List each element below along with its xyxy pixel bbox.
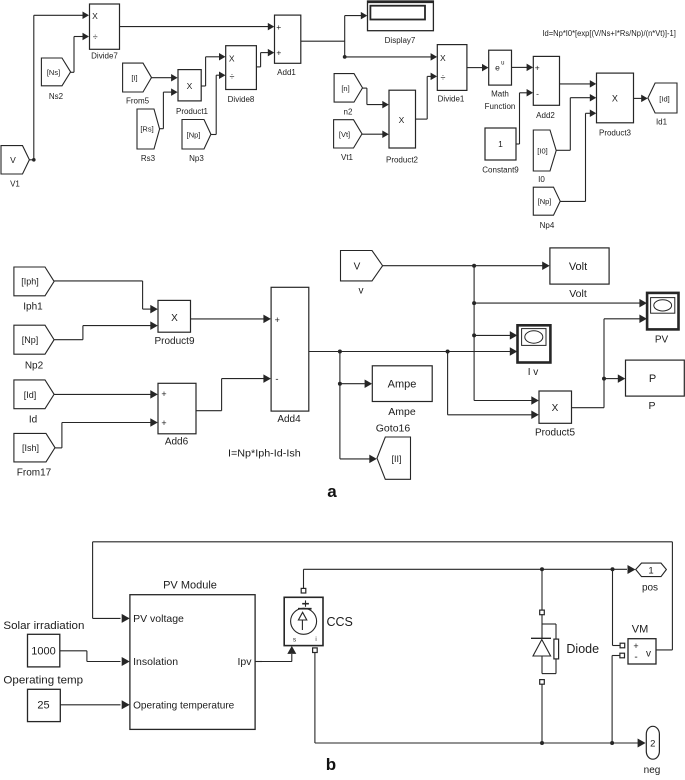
svg-text:Product9: Product9 (154, 336, 194, 347)
svg-text:CCS: CCS (327, 615, 353, 629)
svg-text:-: - (275, 374, 278, 385)
svg-text:[Id]: [Id] (24, 390, 37, 400)
svg-text:From17: From17 (17, 468, 52, 479)
svg-text:25: 25 (37, 700, 49, 712)
svg-text:Add1: Add1 (277, 68, 296, 77)
svg-text:X: X (612, 94, 618, 104)
svg-text:u: u (501, 60, 504, 66)
svg-text:[Np]: [Np] (187, 130, 201, 139)
svg-text:Divide7: Divide7 (91, 51, 118, 60)
svg-text:P: P (648, 400, 655, 412)
svg-text:Ns2: Ns2 (49, 92, 64, 101)
svg-text:Divide8: Divide8 (228, 95, 255, 104)
svg-text:a: a (327, 482, 337, 501)
svg-text:Solar irradiation: Solar irradiation (3, 620, 84, 632)
svg-text:X: X (552, 403, 559, 414)
svg-text:[Id]: [Id] (659, 94, 669, 103)
svg-text:[Ns]: [Ns] (47, 68, 60, 77)
svg-text:Diode: Diode (566, 642, 599, 656)
svg-text:v: v (646, 649, 651, 660)
svg-text:Operating temp: Operating temp (3, 675, 83, 687)
svg-text:Ampe: Ampe (388, 379, 417, 391)
svg-text:i: i (315, 637, 316, 643)
svg-text:Volt: Volt (569, 288, 587, 300)
svg-text:Np2: Np2 (25, 360, 44, 371)
svg-text:X: X (171, 313, 178, 324)
svg-text:Id1: Id1 (656, 118, 668, 127)
svg-text:÷: ÷ (230, 71, 235, 81)
svg-text:Product5: Product5 (535, 427, 575, 438)
svg-text:V: V (10, 155, 16, 165)
svg-text:Ampe: Ampe (388, 406, 416, 418)
svg-text:From5: From5 (126, 96, 150, 105)
svg-text:÷: ÷ (441, 73, 446, 83)
svg-text:+: + (161, 418, 166, 428)
svg-text:+: + (276, 22, 281, 32)
svg-text:÷: ÷ (93, 32, 98, 42)
svg-text:[Ish]: [Ish] (22, 443, 39, 453)
svg-text:Volt: Volt (569, 261, 587, 273)
svg-text:X: X (440, 53, 446, 63)
svg-text:Insolation: Insolation (133, 656, 178, 668)
svg-text:1: 1 (648, 565, 653, 576)
svg-text:[II]: [II] (391, 454, 401, 464)
svg-text:X: X (92, 11, 98, 21)
svg-text:Math: Math (491, 89, 509, 98)
svg-text:Add4: Add4 (277, 414, 301, 425)
svg-text:Operating temperature: Operating temperature (133, 700, 234, 712)
svg-text:I v: I v (528, 367, 539, 378)
svg-text:Add2: Add2 (536, 111, 555, 120)
svg-text:Np4: Np4 (540, 221, 555, 230)
svg-text:X: X (399, 115, 405, 125)
svg-text:V1: V1 (10, 179, 20, 188)
svg-text:pos: pos (642, 582, 658, 593)
svg-text:-: - (536, 89, 539, 99)
svg-text:Divide1: Divide1 (438, 94, 465, 103)
svg-text:Np3: Np3 (189, 154, 204, 163)
svg-text:+: + (633, 641, 638, 651)
svg-text:2: 2 (650, 739, 655, 750)
svg-text:[Np]: [Np] (538, 197, 552, 206)
svg-text:Iph1: Iph1 (23, 302, 43, 313)
svg-text:Rs3: Rs3 (141, 154, 156, 163)
svg-text:Vt1: Vt1 (341, 153, 354, 162)
svg-text:Product3: Product3 (599, 128, 632, 137)
svg-text:V: V (354, 262, 361, 273)
svg-text:Constant9: Constant9 (482, 165, 519, 174)
svg-text:Product1: Product1 (176, 107, 209, 116)
svg-text:PV Module: PV Module (163, 579, 217, 591)
svg-text:Ipv: Ipv (237, 656, 252, 668)
svg-text:1000: 1000 (31, 646, 55, 658)
svg-text:X: X (187, 81, 193, 91)
svg-text:+: + (276, 48, 281, 58)
svg-text:VM: VM (632, 623, 649, 635)
svg-text:-: - (634, 652, 637, 663)
svg-text:I0: I0 (538, 175, 545, 184)
svg-text:[Np]: [Np] (22, 335, 39, 345)
svg-text:[Iph]: [Iph] (21, 277, 39, 287)
svg-text:Goto16: Goto16 (376, 422, 411, 434)
svg-text:+: + (161, 389, 166, 399)
svg-text:Product2: Product2 (386, 155, 419, 164)
svg-text:[I]: [I] (131, 74, 137, 83)
svg-text:Display7: Display7 (385, 36, 416, 45)
svg-text:neg: neg (644, 765, 661, 775)
svg-text:[n]: [n] (341, 84, 349, 93)
svg-text:v: v (359, 286, 364, 297)
svg-text:[Rs]: [Rs] (140, 125, 153, 134)
svg-text:Function: Function (485, 102, 516, 111)
svg-text:n2: n2 (344, 107, 353, 116)
svg-text:X: X (229, 53, 235, 63)
svg-text:I=Np*Iph-Id-Ish: I=Np*Iph-Id-Ish (228, 448, 301, 459)
svg-text:Id=Np*I0*[exp[(V/Ns+I*Rs/Np)/(: Id=Np*I0*[exp[(V/Ns+I*Rs/Np)/(n*Vt)]-1] (542, 29, 676, 38)
svg-text:[I0]: [I0] (537, 146, 547, 155)
svg-text:P: P (649, 373, 656, 385)
svg-text:PV voltage: PV voltage (133, 613, 184, 625)
svg-text:+: + (275, 315, 280, 325)
svg-text:1: 1 (498, 139, 503, 149)
svg-text:Id: Id (29, 414, 37, 425)
svg-text:b: b (326, 755, 336, 774)
svg-text:+: + (535, 63, 540, 73)
svg-text:PV: PV (655, 335, 669, 346)
svg-text:e: e (495, 62, 500, 72)
svg-text:Add6: Add6 (165, 437, 189, 448)
svg-text:[Vt]: [Vt] (339, 130, 350, 139)
